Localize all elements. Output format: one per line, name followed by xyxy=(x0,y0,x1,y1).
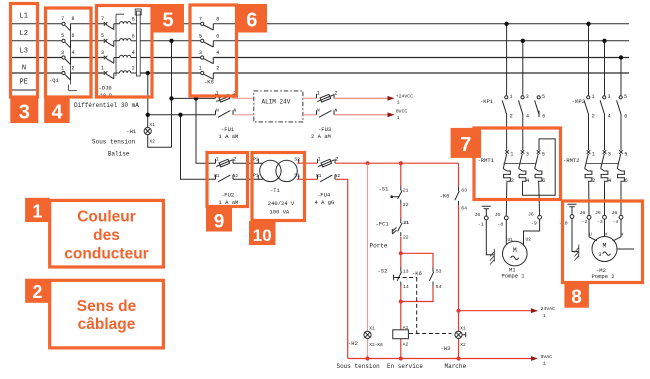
svg-text:1 A aM: 1 A aM xyxy=(219,133,239,140)
svg-text:-KP2: -KP2 xyxy=(572,98,585,105)
svg-text:X2-K6: X2-K6 xyxy=(369,342,383,348)
terminal J6-4 xyxy=(612,210,623,225)
svg-text:4: 4 xyxy=(51,102,63,124)
svg-text:-H1: -H1 xyxy=(126,128,137,135)
svg-text:1: 1 xyxy=(543,361,546,367)
wire PE stub xyxy=(11,89,38,91)
svg-text:-FU4: -FU4 xyxy=(317,191,331,198)
callout box 1 Couleur des conducteur xyxy=(50,200,164,267)
svg-text:-K6: -K6 xyxy=(412,270,422,277)
svg-text:10: 10 xyxy=(253,226,272,245)
svg-text:N2: N2 xyxy=(233,173,239,179)
svg-text:7: 7 xyxy=(61,16,64,22)
wire ALIM to FU3 phase xyxy=(303,97,317,99)
svg-text:3: 3 xyxy=(608,152,611,158)
svg-text:-4: -4 xyxy=(613,219,619,225)
wire N rail xyxy=(11,72,629,74)
wire neutral drop to FU2 xyxy=(181,115,216,180)
svg-text:8: 8 xyxy=(571,287,582,308)
contactor K6 pole 1-2 xyxy=(199,66,219,80)
svg-text:-KP1: -KP1 xyxy=(480,98,494,105)
wire L2 rail xyxy=(11,40,629,42)
svg-text:7: 7 xyxy=(460,134,471,156)
svg-text:-S1: -S1 xyxy=(379,185,390,192)
svg-text:-K6: -K6 xyxy=(440,193,450,200)
svg-text:conducteur: conducteur xyxy=(64,246,148,263)
thermal relay RMT1 pole 1-2 xyxy=(503,150,514,184)
svg-text:2: 2 xyxy=(510,113,513,119)
junction dot N tap xyxy=(146,71,150,75)
Q1 mechanical link and handle xyxy=(69,31,77,91)
node 24VAC xyxy=(541,306,556,319)
wire FU1 to ALIM phase xyxy=(233,97,254,99)
junction dot S2 bottom xyxy=(399,299,403,303)
svg-text:6: 6 xyxy=(71,33,74,39)
svg-text:S1: S1 xyxy=(294,173,300,179)
breaker DJ6 pole 1-2 xyxy=(101,65,136,78)
switch Q1 pole 7-8 xyxy=(61,16,74,31)
switch Q1 pole 5-6 xyxy=(61,33,74,48)
junction dot L2 tap xyxy=(169,39,173,43)
callout tab 4 xyxy=(44,98,69,124)
wire control phase bus (red) FU4 to right xyxy=(335,162,459,164)
callout tab 8 xyxy=(564,283,589,308)
lamp H1 xyxy=(144,122,155,145)
thermal relay RMT1 pole 5-6 xyxy=(535,150,546,184)
svg-text:3: 3 xyxy=(526,94,529,100)
svg-text:N1: N1 xyxy=(316,173,322,179)
svg-text:21: 21 xyxy=(403,187,409,193)
terminal J6-2 xyxy=(580,210,591,225)
svg-text:A2: A2 xyxy=(403,341,409,347)
svg-text:5: 5 xyxy=(542,152,545,158)
svg-text:Porte: Porte xyxy=(370,242,388,249)
lamp H3 Marche xyxy=(455,325,466,348)
node 0VAC xyxy=(541,354,553,367)
svg-text:J6: J6 xyxy=(475,212,481,218)
svg-text:2: 2 xyxy=(32,282,42,302)
svg-text:3: 3 xyxy=(598,251,601,258)
svg-text:P1: P1 xyxy=(253,173,259,179)
DJ6 mechanical link bracket xyxy=(116,14,124,76)
svg-text:2: 2 xyxy=(334,90,337,96)
svg-text:54: 54 xyxy=(436,284,442,290)
breaker DJ6 pole 5-6 xyxy=(101,33,136,46)
svg-text:100 VA: 100 VA xyxy=(270,208,291,215)
svg-text:-H2: -H2 xyxy=(348,340,358,347)
svg-text:-9: -9 xyxy=(531,221,537,227)
svg-text:PE: PE xyxy=(20,79,28,87)
wire J6-3 to motor M2 xyxy=(604,219,606,236)
svg-text:2: 2 xyxy=(335,156,338,162)
svg-text:1: 1 xyxy=(510,152,513,158)
terminal J6-1 with PE bar xyxy=(475,206,491,227)
svg-text:8: 8 xyxy=(216,16,219,22)
thermal relay RMT2 pole 3-4 xyxy=(601,150,612,184)
arrow 24VAC xyxy=(531,308,538,313)
wire KP1 pole4 to RMT1 pole3 xyxy=(522,115,524,150)
wire H2 branch (pink) xyxy=(367,163,369,358)
callout box 7 (RMT1) xyxy=(474,128,561,200)
wire L2 drop to KP2 pole 3 xyxy=(604,41,606,96)
svg-text:W: W xyxy=(621,231,624,237)
callout box 5 (DJ6) xyxy=(97,6,153,98)
svg-text:-FU3: -FU3 xyxy=(318,126,331,133)
svg-text:J6: J6 xyxy=(580,210,586,216)
svg-text:3: 3 xyxy=(101,50,104,56)
svg-text:2 A aM: 2 A aM xyxy=(311,133,331,140)
svg-text:4: 4 xyxy=(608,113,611,119)
svg-text:14: 14 xyxy=(403,284,409,290)
switch Q1 pole 3-4 xyxy=(61,50,74,65)
wire branch to K6 53 (red) xyxy=(401,253,433,301)
lamp H2 Sous tension xyxy=(364,325,383,348)
terminal J6-10 with PE bar xyxy=(559,204,577,226)
svg-text:U1: U1 xyxy=(508,237,514,243)
svg-text:-3: -3 xyxy=(597,219,603,225)
wire phase feed bus y98 xyxy=(172,97,216,99)
svg-text:des: des xyxy=(93,227,120,244)
callout box 2 Sens de cablage xyxy=(50,280,164,348)
svg-text:L2: L2 xyxy=(20,30,28,38)
svg-text:-FU1: -FU1 xyxy=(221,126,235,133)
svg-text:9: 9 xyxy=(214,212,225,233)
fuse FU2 phase pole xyxy=(216,156,237,167)
wire RMT1 pole6 to terminal J6-9 xyxy=(538,182,541,215)
svg-text:13: 13 xyxy=(403,268,409,274)
svg-text:5: 5 xyxy=(61,33,64,39)
svg-text:6: 6 xyxy=(132,33,135,39)
wire J6-1 to chassis ground M1 xyxy=(486,220,494,255)
junction dot neutral FU2 branch xyxy=(178,113,182,117)
wire RMT2 outputs to terminals J6-2 J6-3 J6-4 xyxy=(589,182,621,215)
DJ6 differential sensor bar xyxy=(135,9,141,15)
thermal relay RMT2 pole 5-6 xyxy=(617,150,628,184)
svg-text:21: 21 xyxy=(403,220,409,226)
junction dot phase bus xyxy=(169,96,173,100)
wire 24VAC tap with arrow xyxy=(459,310,532,312)
svg-text:N: N xyxy=(233,107,236,113)
wire L3 drop to KP2 pole 5 xyxy=(620,58,622,96)
fuse FU2 neutral pole xyxy=(214,173,238,182)
svg-text:1: 1 xyxy=(543,313,546,319)
junction dot S2 top xyxy=(399,251,403,255)
wire FU3 output 0VCC with arrow xyxy=(334,112,395,117)
svg-text:5: 5 xyxy=(101,33,104,39)
svg-text:24VAC: 24VAC xyxy=(541,306,556,312)
wire J6-8 to motor M1 xyxy=(505,220,507,245)
svg-text:En service: En service xyxy=(387,363,423,370)
fuse FU1 phase pole xyxy=(216,90,237,102)
chassis ground M1 xyxy=(490,249,494,265)
callout box 6 (K6) xyxy=(190,5,237,96)
fuse FU4 neutral pole xyxy=(316,173,340,182)
svg-text:M: M xyxy=(513,247,517,254)
breaker DJ6 pole 3-4 xyxy=(101,50,136,63)
svg-text:5: 5 xyxy=(624,152,627,158)
RMT2 mechanical link bar xyxy=(586,162,620,164)
contactor K6 pole 7-8 xyxy=(199,16,219,30)
svg-text:22: 22 xyxy=(403,202,409,208)
svg-text:U2: U2 xyxy=(526,236,532,242)
wire L2 drop to KP1 pole 3 xyxy=(522,41,524,96)
contact FC1 NC limit switch xyxy=(392,219,409,241)
svg-text:J6: J6 xyxy=(495,212,501,218)
junction dot phase FU2 branch xyxy=(194,96,198,100)
svg-text:-8: -8 xyxy=(498,221,504,227)
junction dot L1/KP1 xyxy=(504,22,508,26)
callout box 10 (T1) xyxy=(252,153,305,221)
contact K6 63-64 xyxy=(455,187,467,212)
svg-text:-FU2: -FU2 xyxy=(221,191,234,198)
svg-text:X1: X1 xyxy=(460,325,466,331)
svg-text:2: 2 xyxy=(592,113,595,119)
wire KP1 pole2 to RMT1 pole1 xyxy=(506,115,508,150)
junction dot 24VAC tap xyxy=(456,309,460,313)
svg-text:6: 6 xyxy=(542,113,545,119)
wire J6-4 to motor M2 xyxy=(613,219,621,241)
contactor K6 pole 3-4 xyxy=(199,50,219,64)
svg-text:N1: N1 xyxy=(214,173,220,179)
svg-text:-1: -1 xyxy=(478,221,484,227)
wire J6-2 to motor M2 xyxy=(589,219,597,241)
node +24VCC xyxy=(396,93,413,105)
wire motor M2 right stub xyxy=(617,248,634,250)
svg-text:3: 3 xyxy=(526,152,529,158)
dashed link down to lamp H3 xyxy=(409,278,452,334)
callout tab 5 xyxy=(152,4,184,33)
svg-text:X2: X2 xyxy=(150,138,156,144)
svg-text:4: 4 xyxy=(526,113,529,119)
svg-text:-S2: -S2 xyxy=(378,267,388,274)
wire L1 drop to KP2 pole 1 xyxy=(588,24,590,96)
callout tab 1 xyxy=(25,198,50,222)
fuse FU3 neutral pole xyxy=(317,107,338,117)
svg-text:-Q1: -Q1 xyxy=(49,77,60,84)
svg-text:2: 2 xyxy=(233,156,236,162)
callout box 4 (Q1) xyxy=(46,8,92,97)
callout box 3 (rail labels) xyxy=(11,4,38,98)
svg-text:2: 2 xyxy=(592,178,595,184)
svg-text:1: 1 xyxy=(592,94,595,100)
svg-text:1: 1 xyxy=(199,66,202,72)
svg-text:6: 6 xyxy=(624,113,627,119)
breaker KP2 pole 3-4 xyxy=(600,94,611,119)
wire L2 tap down to control feed xyxy=(171,41,173,147)
breaker KP2 pole 1-2 xyxy=(584,94,595,119)
svg-text:2: 2 xyxy=(511,178,514,184)
svg-text:1: 1 xyxy=(592,152,595,158)
svg-text:6: 6 xyxy=(246,10,257,32)
svg-text:1: 1 xyxy=(101,65,104,71)
terminal J6-3 xyxy=(595,210,606,225)
svg-text:22: 22 xyxy=(403,235,409,241)
callout tab 10 xyxy=(249,221,276,245)
breaker KP1 pole 3-4 xyxy=(518,94,529,119)
svg-text:X1: X1 xyxy=(150,122,156,128)
svg-text:-T1: -T1 xyxy=(270,187,281,194)
terminal J6-9 xyxy=(528,211,541,226)
contact S1 NC xyxy=(390,186,408,208)
transformer T1 xyxy=(253,156,300,181)
wire control bottom rail (red) xyxy=(348,358,532,360)
wire J6-10 to chassis ground M2 xyxy=(572,218,578,251)
wire FU2 to T1 primary xyxy=(233,163,263,179)
junction dot L2/KP2 xyxy=(602,39,606,43)
svg-text:1: 1 xyxy=(510,94,513,100)
callout tab 3 xyxy=(10,98,38,124)
svg-text:X2: X2 xyxy=(460,342,466,348)
svg-text:240/24 V: 240/24 V xyxy=(268,200,295,207)
svg-text:3: 3 xyxy=(199,50,202,56)
svg-text:7: 7 xyxy=(199,16,202,22)
contact K6 53-54 holding xyxy=(429,267,441,290)
svg-text:7: 7 xyxy=(101,16,104,22)
svg-text:P2: P2 xyxy=(253,156,259,162)
svg-text:8: 8 xyxy=(132,16,135,22)
wire FU3 output +24VCC with arrow xyxy=(334,96,395,101)
fuse FU1 neutral pole xyxy=(216,107,237,117)
svg-text:1: 1 xyxy=(61,65,64,71)
node 0VCC xyxy=(396,109,408,121)
svg-text:1 A aM: 1 A aM xyxy=(219,199,239,206)
svg-text:N: N xyxy=(335,107,338,113)
wire T1 secondary to FU4 xyxy=(297,163,318,179)
svg-text:5: 5 xyxy=(542,94,545,100)
svg-text:N: N xyxy=(216,107,219,113)
svg-text:2: 2 xyxy=(71,65,74,71)
svg-text:1: 1 xyxy=(216,156,219,162)
svg-text:V: V xyxy=(605,231,608,237)
svg-text:L1: L1 xyxy=(20,13,28,21)
wire N tap down to lamp H1 xyxy=(147,73,149,128)
svg-text:63: 63 xyxy=(461,187,467,193)
svg-text:6: 6 xyxy=(216,33,219,39)
svg-text:4 A gG: 4 A gG xyxy=(315,199,335,206)
svg-text:S2: S2 xyxy=(294,156,300,162)
wire L1 drop to KP1 pole 1 xyxy=(506,24,508,96)
svg-text:Balise: Balise xyxy=(108,151,130,158)
svg-text:1: 1 xyxy=(397,99,400,105)
wire S1 chain vertical (red) xyxy=(400,163,402,358)
svg-text:2: 2 xyxy=(216,66,219,72)
svg-text:1: 1 xyxy=(397,115,400,121)
callout tab 2 xyxy=(25,279,50,303)
svg-text:Sens de: Sens de xyxy=(77,298,137,315)
junction dot H3 bottom xyxy=(456,356,460,360)
svg-text:1: 1 xyxy=(318,156,321,162)
wire K6 63-64 branch (red) xyxy=(458,163,460,358)
junction dot H2 bottom xyxy=(365,356,369,360)
svg-text:-RMT2: -RMT2 xyxy=(563,157,580,164)
wire neutral feed bus y115 xyxy=(148,114,216,116)
contact S2 NO start button xyxy=(394,267,409,290)
svg-text:0VAC: 0VAC xyxy=(541,354,553,360)
svg-text:3: 3 xyxy=(608,94,611,100)
svg-text:Différentiel 30 mA: Différentiel 30 mA xyxy=(74,102,139,109)
svg-text:Sous tension: Sous tension xyxy=(337,363,381,370)
junction dot red S1 branch xyxy=(399,161,403,165)
breaker KP1 pole 5-6 spare xyxy=(535,94,546,119)
svg-text:3: 3 xyxy=(19,102,30,124)
wire H1 lamp bottom return xyxy=(148,135,172,148)
switch Q1 pole 1-2 xyxy=(61,65,74,80)
svg-text:3: 3 xyxy=(61,50,64,56)
callout box 9 (FU2) xyxy=(207,153,248,207)
svg-text:4: 4 xyxy=(216,50,219,56)
wire RMT1 pole4 loop to pole5 xyxy=(523,139,556,195)
svg-text:M: M xyxy=(603,242,607,249)
svg-text:Sous tension: Sous tension xyxy=(92,139,136,146)
callout box 8 (M2 Pompe 2) xyxy=(563,201,643,283)
svg-text:6: 6 xyxy=(625,178,628,184)
wire L3 rail xyxy=(11,57,629,59)
chassis ground M2 xyxy=(575,245,579,261)
svg-text:64: 64 xyxy=(461,205,467,211)
callout tab 6 xyxy=(237,4,268,33)
svg-text:L3: L3 xyxy=(20,47,28,55)
svg-text:1: 1 xyxy=(317,90,320,96)
power supply ALIM 24V xyxy=(254,91,303,122)
svg-text:Marche: Marche xyxy=(445,363,467,370)
svg-text:N: N xyxy=(317,107,320,113)
svg-text:Pompe 1: Pompe 1 xyxy=(502,273,526,280)
wire J6-9 to motor M1 xyxy=(524,219,540,244)
svg-text:J6: J6 xyxy=(612,210,618,216)
junction dot neutral lamp xyxy=(146,113,150,117)
wire ALIM to FU3 neutral xyxy=(303,114,317,116)
svg-text:N: N xyxy=(22,65,26,73)
callout tab 7 xyxy=(451,128,482,158)
svg-text:ALIM 24V: ALIM 24V xyxy=(262,99,291,106)
svg-text:U: U xyxy=(589,231,592,237)
junction dot L1/KP2 xyxy=(586,22,590,26)
wire FU1 to ALIM neutral xyxy=(233,114,254,116)
svg-text:X1: X1 xyxy=(369,325,375,331)
dashed mechanical link S2/K6-53 xyxy=(396,277,417,279)
fuse FU4 phase pole xyxy=(318,156,339,167)
svg-text:N2: N2 xyxy=(335,173,341,179)
svg-text:5: 5 xyxy=(162,10,173,32)
callout tab 9 xyxy=(206,208,232,233)
svg-text:5: 5 xyxy=(624,94,627,100)
svg-text:2: 2 xyxy=(132,66,135,72)
svg-text:J6: J6 xyxy=(528,211,534,217)
svg-text:Pompe 2: Pompe 2 xyxy=(592,273,615,280)
svg-text:8: 8 xyxy=(71,16,74,22)
coil K6 xyxy=(393,325,409,348)
svg-text:-K6: -K6 xyxy=(204,79,214,86)
motor M1 Pompe 1 xyxy=(503,236,532,266)
junction dot L3/KP2 xyxy=(619,55,623,59)
arrow 0VAC xyxy=(531,356,538,361)
wire L1 rail xyxy=(11,23,629,25)
wire phase drop to FU2 xyxy=(196,98,216,163)
wire KP2 outputs to RMT2 inputs xyxy=(589,115,622,150)
svg-text:6: 6 xyxy=(542,178,545,184)
wire RMT1 pole2 to terminal J6-8 xyxy=(505,182,508,216)
fuse FU3 phase pole xyxy=(317,90,338,102)
contactor K6 pole 5-6 xyxy=(199,33,219,47)
svg-text:5: 5 xyxy=(199,33,202,39)
svg-text:+24VCC: +24VCC xyxy=(396,93,413,99)
svg-text:0VCC: 0VCC xyxy=(396,109,408,115)
svg-text:A1: A1 xyxy=(403,325,409,331)
svg-text:-DJ6: -DJ6 xyxy=(99,85,112,92)
breaker KP1 pole 1-2 xyxy=(502,94,513,119)
thermal relay RMT2 pole 1-2 xyxy=(585,150,596,184)
junction dot L2/KP1 xyxy=(521,39,525,43)
